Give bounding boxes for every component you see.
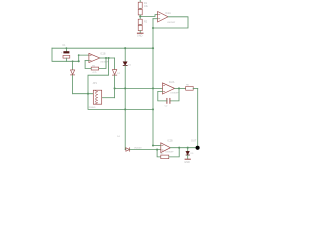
node output terminal [196, 146, 200, 150]
wire U4 plus input [153, 145, 161, 147]
resistor R6 (U3 output) [186, 84, 198, 90]
svg-text:D2: D2 [117, 73, 121, 75]
wire U1 inverting input [153, 18, 158, 20]
node feedback junction U1 [152, 27, 154, 29]
svg-text:C1: C1 [62, 44, 66, 47]
wire D3 bottom to header [73, 93, 94, 95]
svg-text:D5: D5 [191, 153, 195, 155]
node bottom wire junction [78, 60, 80, 62]
node D3 top tap [72, 60, 74, 62]
node riser top [78, 54, 80, 56]
wire main vertical net x=153 [152, 19, 154, 146]
resistor R5 (U2 feedback) [91, 65, 99, 74]
op-amp U4 (bottom) [161, 140, 174, 154]
capacitor C1 (polarized) [61, 44, 70, 62]
node mid wire at main vertical [152, 87, 154, 89]
wire U4 output [170, 147, 195, 149]
wire vertical A to header right pin [102, 97, 115, 99]
diode D3 (left vertical) [71, 61, 75, 93]
svg-text:D4: D4 [117, 136, 121, 138]
node U3 output tap [178, 87, 180, 89]
node D1 lower tap [124, 108, 126, 110]
wire U4 feedback lower [157, 150, 161, 157]
node vertical A mid tap [114, 87, 116, 89]
svg-text:LM358P: LM358P [170, 92, 179, 94]
node U4 output feedback tap [178, 147, 180, 149]
node U4 feedback tap on minus input [156, 149, 158, 151]
wire top horizontal net [52, 47, 153, 49]
wire header bus loop [88, 58, 153, 109]
node D1 mid tap [124, 87, 126, 89]
diode D1 (dark, on long vertical) [123, 48, 132, 149]
svg-text:IC1A: IC1A [165, 12, 171, 15]
svg-text:D1: D1 [128, 65, 132, 67]
svg-text:R6: R6 [186, 84, 190, 86]
svg-text:OUT: OUT [191, 139, 197, 142]
node LED branch tap [187, 147, 189, 149]
node bus at main vertical [152, 108, 154, 110]
diode D4 (into U4 inverting path) [117, 136, 161, 151]
wire riser to U2 plus input [79, 55, 89, 61]
op-amp U1 (top-right follower) [158, 12, 176, 25]
ground GND2 [184, 159, 190, 164]
node D1 top [124, 47, 126, 49]
node U2 output bus tap [108, 57, 110, 59]
wire left loop [52, 48, 79, 61]
node top net at main vertical [152, 47, 154, 49]
pin header JP1 [89, 81, 102, 109]
wire mid horizontal to U3 [115, 87, 163, 89]
wire divider to op-amp input [140, 15, 157, 17]
resistor R4 [138, 25, 142, 34]
svg-text:R2: R2 [144, 21, 148, 24]
node left bus tap [87, 93, 89, 95]
svg-text:IC2A: IC2A [169, 81, 175, 84]
wire U1 feedback loop [153, 17, 188, 28]
wire right edge vertical [197, 88, 199, 147]
svg-text:+: + [61, 52, 63, 55]
wire U2 output [100, 57, 115, 59]
svg-text:LM358P: LM358P [167, 22, 176, 24]
svg-text:IC2B: IC2B [167, 140, 173, 143]
svg-text:10k: 10k [144, 5, 149, 8]
svg-text:1N4148: 1N4148 [134, 148, 142, 150]
resistor R2 [138, 8, 142, 16]
op-amp U2 (mid-left) [89, 52, 109, 63]
op-amp U3 (mid-right) [163, 81, 179, 94]
svg-text:GND: GND [137, 35, 143, 38]
LED D5 [186, 148, 194, 159]
svg-text:IC1B: IC1B [100, 52, 106, 55]
svg-text:GND: GND [184, 161, 190, 164]
resistor R1 [138, 0, 148, 8]
node C1 top [66, 47, 68, 49]
diode D2 (on vertical A) [112, 58, 120, 98]
svg-text:JP1: JP1 [93, 81, 98, 85]
svg-text:LM358P: LM358P [165, 151, 174, 153]
svg-text:PINHD: PINHD [89, 107, 96, 109]
ground GND1 [137, 33, 143, 38]
svg-text:4.7k: 4.7k [92, 72, 97, 74]
node U2 output feedback tap [105, 57, 107, 59]
node divider junction [139, 15, 141, 17]
capacitor C2 (U3 feedback) [158, 88, 179, 107]
wire U4 feedback return [169, 148, 179, 157]
wire U2 feedback lower [99, 58, 106, 69]
resistor R3 [138, 17, 148, 25]
svg-text:LM358P: LM358P [100, 62, 109, 64]
svg-text:C2: C2 [165, 105, 169, 107]
node U4 plus input (main vertical end) [152, 144, 154, 146]
wire U3 output [175, 87, 186, 89]
wire U2 inverting input [85, 60, 89, 62]
resistor R7 (U4 feedback) [161, 154, 169, 159]
wire U2 feedback return [85, 61, 91, 69]
